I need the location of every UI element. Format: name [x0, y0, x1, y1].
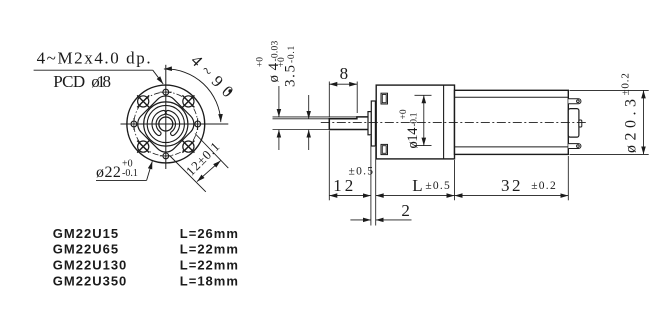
svg-text:4~M2x4.0 dp.: 4~M2x4.0 dp. — [37, 49, 151, 68]
svg-text:GM22U350: GM22U350 — [53, 274, 127, 289]
svg-text:±0.2: ±0.2 — [620, 73, 632, 95]
svg-text:2: 2 — [401, 201, 410, 220]
svg-text:ø14: ø14 — [405, 127, 421, 149]
svg-text:-0.1: -0.1 — [410, 112, 420, 126]
svg-text:32: 32 — [501, 176, 521, 195]
svg-text:L=22mm: L=22mm — [180, 242, 239, 257]
svg-text:+0: +0 — [277, 57, 287, 67]
svg-text:L=18mm: L=18mm — [180, 274, 239, 289]
svg-text:-0.1: -0.1 — [287, 45, 297, 63]
svg-text:±0.2: ±0.2 — [531, 180, 556, 192]
svg-text:L: L — [412, 176, 422, 195]
svg-text:GM22U130: GM22U130 — [53, 258, 127, 273]
svg-text:L=22mm: L=22mm — [180, 258, 239, 273]
svg-text:GM22U65: GM22U65 — [53, 242, 119, 257]
svg-text:±0.5: ±0.5 — [349, 165, 374, 177]
svg-text:ø22: ø22 — [96, 164, 121, 181]
svg-text:8: 8 — [340, 64, 349, 83]
svg-text:PCD: PCD — [53, 72, 85, 91]
svg-text:ø20.3: ø20.3 — [623, 99, 640, 153]
svg-text:12±0.1: 12±0.1 — [183, 139, 223, 179]
svg-text:-0.1: -0.1 — [122, 168, 138, 179]
svg-text:±0.5: ±0.5 — [425, 180, 450, 192]
svg-text:12: 12 — [333, 176, 353, 195]
svg-text:GM22U15: GM22U15 — [53, 226, 119, 241]
svg-text:ø18: ø18 — [91, 72, 111, 91]
svg-text:+0: +0 — [256, 57, 266, 67]
svg-text:L=26mm: L=26mm — [180, 226, 239, 241]
svg-text:+0: +0 — [399, 109, 409, 119]
